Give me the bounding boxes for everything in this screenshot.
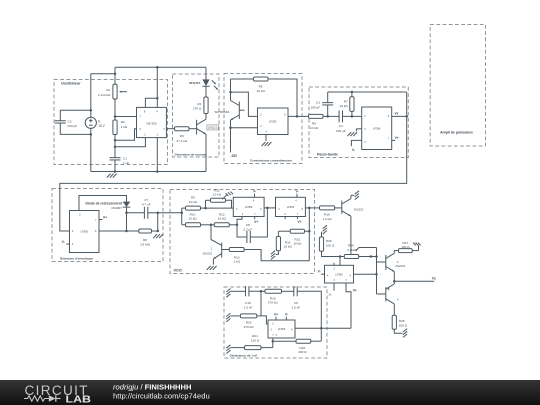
svg-text:R39: R39 — [348, 243, 354, 247]
capacitor C3 — [327, 105, 329, 117]
node base rail / U7 output — [375, 273, 378, 276]
capacitor C4 — [338, 110, 340, 122]
resistor R27 — [399, 249, 413, 253]
node R1/R2 junction to pin 7 — [114, 115, 117, 118]
node VCO input — [181, 212, 184, 215]
wire E bottom to ground rail — [90, 128, 92, 171]
svg-text:2N2222: 2N2222 — [203, 251, 213, 255]
wire C2 bottom — [60, 123, 91, 134]
wire R8 right — [152, 230, 158, 232]
wire R14 to ground — [276, 251, 279, 255]
svg-text:270 kΩ: 270 kΩ — [244, 325, 255, 329]
wire U8 V- stub — [285, 317, 287, 320]
transistor Q4 2N2222 chopper — [341, 201, 343, 214]
capacitor C10 — [245, 286, 247, 296]
VCO section box — [170, 190, 315, 274]
op-amp U3 LF356 — [362, 107, 392, 150]
wire U2 output — [288, 115, 309, 117]
wire to 555 pin 7 — [115, 116, 137, 118]
resistor R3 — [175, 127, 190, 131]
node 555 Vcc loop — [156, 97, 159, 100]
wire C4 to U3 pin2 — [343, 115, 362, 117]
ground U2 — [262, 142, 266, 146]
wire U6 V+ stubs — [284, 217, 286, 220]
op-amp U5 LF356 integrator — [233, 197, 264, 216]
svg-text:2.2 µF: 2.2 µF — [243, 227, 252, 231]
svg-text:http://circuitlab.com/cp74edu: http://circuitlab.com/cp74edu — [113, 392, 210, 401]
svg-text:C8: C8 — [246, 223, 250, 227]
IC U1 NE555 — [137, 107, 167, 137]
capacitor C9 — [293, 286, 295, 296]
wire R38 to R39 node — [322, 251, 341, 256]
svg-text:C3: C3 — [316, 101, 320, 105]
Ampli de puissance section box — [430, 25, 485, 147]
ground Q3 emitter — [207, 266, 211, 270]
wire R39 right — [359, 256, 377, 258]
svg-text:1.5 nF: 1.5 nF — [244, 305, 253, 309]
svg-text:270 kΩ: 270 kΩ — [268, 301, 279, 305]
svg-text:NE 555: NE 555 — [146, 122, 156, 126]
resistor R16 — [320, 206, 335, 210]
svg-text:2.114 kΩ: 2.114 kΩ — [98, 93, 111, 97]
svg-text:Générateur de courant: Générateur de courant — [175, 152, 206, 156]
CircuitLab logo diode — [49, 395, 56, 401]
wire bandpass feedback top — [328, 91, 407, 93]
svg-text:Convertisseur courant/tension: Convertisseur courant/tension — [250, 159, 292, 163]
wire Q1 emitter to ground rail — [205, 134, 207, 171]
node R7 top — [351, 91, 354, 94]
capacitor C8 — [237, 225, 247, 237]
svg-text:LF356: LF356 — [373, 126, 381, 130]
svg-text:LF356: LF356 — [269, 119, 277, 123]
svg-text:C4: C4 — [339, 124, 343, 128]
svg-text:LF356: LF356 — [81, 230, 89, 234]
svg-text:1 kΩ: 1 kΩ — [121, 125, 128, 129]
wire Q6 collector to R28 — [393, 304, 395, 315]
svg-text:10 kΩ: 10 kΩ — [310, 126, 319, 130]
wire E top to rails — [90, 74, 92, 110]
wire 555 pin 3 to R3 — [166, 128, 174, 130]
svg-text:10 kΩ: 10 kΩ — [293, 242, 302, 246]
svg-text:Jn: Jn — [328, 293, 331, 297]
svg-text:2N2222: 2N2222 — [208, 126, 218, 130]
svg-text:120 Ω: 120 Ω — [251, 338, 260, 342]
svg-text:V-: V- — [285, 312, 288, 316]
wire push-pull base rail — [376, 248, 378, 295]
capacitor C1 — [110, 157, 121, 159]
svg-text:C7: C7 — [144, 198, 148, 202]
wire U4 pin7 V+ — [99, 219, 102, 221]
wire R19 to C9 — [282, 290, 294, 292]
Generateur de sol section box — [224, 287, 327, 358]
svg-text:1.2 kΩ: 1.2 kΩ — [322, 217, 332, 221]
resistor R14 — [277, 231, 279, 236]
svg-text:R7: R7 — [344, 100, 348, 104]
node R39 left / U7 pin2 — [339, 255, 342, 258]
resistor R8 — [139, 229, 152, 233]
wire Q3 base to R13 — [222, 249, 230, 251]
svg-text:Oscillateur: Oscillateur — [61, 82, 81, 86]
wire to U2 pin 3 — [231, 127, 258, 129]
node R12/C8/U5 — [236, 224, 239, 227]
node sol output feedback — [320, 327, 323, 330]
svg-text:V-: V- — [295, 190, 298, 194]
wire R39 node to U7 pin2 — [339, 257, 341, 266]
node 555 Vcc rail — [156, 66, 159, 69]
wire rail bottom to R13 — [244, 250, 309, 261]
wire 555 Vcc pins 8 and 4 — [145, 98, 157, 107]
svg-text:V-: V- — [317, 270, 320, 274]
node Q2 collector / R5 / op-amp input — [229, 91, 232, 94]
wire U3 pin4 V- supply — [351, 140, 361, 146]
potentiometer R39 — [344, 255, 358, 259]
svg-text:Ampli de puissance: Ampli de puissance — [440, 130, 473, 134]
wire U3 pin7 V+ supply — [392, 139, 396, 141]
potentiometer R1 — [114, 74, 116, 85]
svg-text:10 kΩ: 10 kΩ — [284, 244, 293, 248]
resistor R10 — [182, 224, 186, 226]
wire R39 left — [340, 256, 344, 258]
wire bottom rail — [91, 171, 206, 173]
svg-text:V+: V+ — [103, 215, 107, 219]
wire U6 V- stub — [296, 194, 298, 198]
Passe-bande section box — [309, 87, 408, 158]
wire R2 bottom — [114, 135, 116, 158]
svg-text:330 Ω: 330 Ω — [298, 350, 307, 354]
node U5 output / C8 — [266, 207, 269, 210]
svg-text:10 kΩ: 10 kΩ — [189, 200, 198, 204]
ground sol R21 — [226, 345, 230, 348]
wire U3 pin3 to ground — [357, 128, 362, 130]
svg-text:2.2kΩ: 2.2kΩ — [347, 248, 356, 252]
svg-text:R8: R8 — [143, 238, 147, 242]
ground of oscillator — [107, 174, 111, 178]
svg-text:1N4007: 1N4007 — [111, 206, 122, 210]
svg-text:Vs: Vs — [432, 277, 436, 281]
node R15 tap — [308, 230, 311, 233]
svg-text:1: 1 — [210, 246, 212, 250]
wire Q4 collector to ground — [350, 195, 352, 198]
svg-text:R3: R3 — [180, 134, 184, 138]
resistor R19 — [265, 289, 282, 293]
svg-text:100 Ω: 100 Ω — [399, 324, 408, 328]
resistor R9 — [182, 207, 186, 209]
op-amp U7 LF356 output buffer — [325, 265, 354, 283]
wire Q2 emitter to -15V — [230, 120, 232, 152]
LED D2 SFH415 — [205, 67, 207, 79]
node 555 pin1 ground rail — [156, 170, 159, 173]
node R6/C3/C4 junction — [323, 115, 339, 117]
node R39 to base rail — [375, 255, 378, 258]
resistor R12 — [211, 224, 214, 226]
wire U4 pin4 V- — [66, 243, 69, 245]
svg-text:V-: V- — [352, 148, 355, 152]
svg-text:10 kΩ: 10 kΩ — [340, 104, 349, 108]
resistor R22 — [273, 340, 296, 342]
svg-text:LF356: LF356 — [245, 205, 253, 209]
node Vs output — [405, 115, 408, 118]
resistor R28 — [392, 315, 396, 329]
svg-text:E: E — [98, 119, 100, 123]
wire R20 to U8 pin2 — [257, 315, 261, 317]
transistor Q1 2N2222 — [196, 120, 198, 135]
svg-text:Générateur de 'sol': Générateur de 'sol' — [230, 354, 258, 358]
resistor R21 — [245, 346, 262, 350]
ground detector output — [153, 234, 157, 238]
wire R5 to output node — [268, 79, 297, 116]
voltage source E — [90, 110, 92, 117]
svg-text:10 kΩ: 10 kΩ — [257, 89, 266, 93]
resistor R5 feedback — [231, 78, 254, 80]
transistor Q6 PNP bottom — [385, 287, 387, 301]
svg-text:10 kΩ: 10 kΩ — [188, 216, 197, 220]
wire Vcc rail upper — [114, 67, 116, 74]
svg-text:2N2222: 2N2222 — [354, 208, 364, 212]
wire C10 to R19 — [249, 290, 265, 292]
wire C2 top — [60, 110, 91, 121]
node R5/output junction — [296, 115, 299, 118]
ground R28 — [403, 329, 407, 332]
wire U4 output to R8 — [99, 230, 139, 232]
svg-text:Détecteur d'enveloppe: Détecteur d'enveloppe — [60, 256, 93, 260]
node pin2 tap — [114, 146, 117, 149]
wire Q1 collector to R4 — [205, 114, 207, 120]
svg-text:270 Ω: 270 Ω — [193, 107, 202, 111]
node pin6 tap — [114, 139, 117, 142]
svg-text:LF356: LF356 — [287, 205, 295, 209]
wire U7 pin7 V+ from sol generator — [346, 283, 351, 328]
resistor R2 — [113, 120, 117, 135]
ground Q4 collector — [355, 191, 359, 194]
transistor Q5 2N2222 NPN top — [385, 255, 387, 270]
diode D1 1N4007 — [123, 202, 131, 207]
wire U8 output — [295, 327, 351, 329]
svg-text:V+: V+ — [395, 136, 399, 140]
wire U7 pin4 V- — [321, 273, 324, 275]
svg-text:R6: R6 — [312, 121, 316, 125]
node Q2 emitter / U2 pin3 — [229, 126, 232, 129]
node R10/R12/Q3 — [210, 224, 213, 227]
svg-text:Diode de redressement: Diode de redressement — [86, 201, 123, 205]
node Vs output — [393, 280, 396, 283]
Convertisseur courant/tension section box — [224, 74, 302, 164]
wire R39 wiper loop — [359, 247, 377, 249]
wire R12 node to U5 pin2 — [237, 217, 242, 225]
wire R3 to Q1 base — [189, 128, 197, 130]
wire Vs down and feedback to detector — [60, 92, 407, 231]
resistor R20 — [240, 314, 256, 318]
svg-text:100 pF: 100 pF — [310, 105, 320, 109]
wire Vs output — [394, 280, 434, 282]
node diode/C7 tap — [125, 212, 128, 215]
wire Q2 collector node to U2 pin2 — [231, 92, 258, 116]
node U6 output rail — [308, 207, 311, 210]
wire R22 to output node — [311, 340, 322, 342]
wire U7 pin2 stub — [333, 263, 335, 266]
svg-text:3.9 MΩ: 3.9 MΩ — [140, 243, 151, 247]
op-amp U4 LF356 — [70, 211, 100, 253]
ground R14 — [271, 251, 275, 254]
svg-text:27.4 kΩ: 27.4 kΩ — [176, 139, 187, 143]
node R7 bottom — [351, 115, 354, 118]
svg-text:LAB: LAB — [66, 393, 92, 405]
Oscillateur section box — [54, 80, 168, 165]
op-amp U8 LF356 sol — [268, 320, 295, 338]
node diode/U4 output — [125, 230, 128, 233]
wire U5 to U6 — [264, 207, 275, 209]
node R1 top — [114, 73, 117, 76]
svg-text:2N2222: 2N2222 — [395, 264, 405, 268]
svg-text:VCO: VCO — [174, 268, 182, 272]
svg-text:100 µF: 100 µF — [336, 129, 346, 133]
wire 555 pin 2 — [115, 138, 145, 147]
svg-text:V-: V- — [62, 240, 65, 244]
resistor R7 — [351, 92, 353, 97]
node R8/C7/ground — [157, 230, 160, 233]
node R39 right — [370, 255, 373, 258]
wire diode cathode down — [126, 207, 128, 231]
wire R1 to R2 — [114, 99, 116, 120]
node R9/R11 — [204, 207, 207, 210]
node C7 right — [157, 212, 160, 215]
svg-text:V+: V+ — [254, 220, 258, 224]
resistor R6 — [309, 114, 324, 118]
svg-text:rodrigju / FINISHHHHH: rodrigju / FINISHHHHH — [113, 382, 192, 391]
wire R28 to ground — [394, 329, 402, 333]
wire U4 pin2 feedback loop — [79, 196, 127, 211]
wire C9 to feedback vertical — [297, 291, 321, 341]
ground U3 pin3 — [347, 132, 351, 136]
ground sol R20 — [226, 313, 230, 316]
wire U3 output Vs — [392, 115, 407, 117]
svg-text:R9: R9 — [191, 195, 195, 199]
wire U6 output — [305, 207, 319, 209]
svg-text:LF356: LF356 — [278, 327, 286, 331]
wire U7 pin3 stub — [333, 283, 335, 291]
svg-text:SFH415: SFH415 — [189, 81, 201, 85]
resistor R4 — [204, 97, 208, 114]
svg-text:V+: V+ — [353, 289, 357, 293]
node C1 ground rail — [114, 170, 117, 173]
svg-text:LF356: LF356 — [335, 272, 343, 276]
wire U7 output to base rail — [354, 273, 377, 275]
svg-text:1 kΩ: 1 kΩ — [233, 260, 240, 264]
wire Q5 collector to R27 — [394, 251, 398, 254]
node E bottom — [90, 133, 93, 136]
footer bar — [0, 380, 540, 405]
wire feedback rail right side of VCO — [308, 208, 310, 261]
Detecteur d'enveloppe section box — [52, 189, 163, 262]
svg-text:R2: R2 — [121, 120, 125, 124]
ground R27 — [413, 243, 416, 246]
wire Q4 emitter to R39 wiper — [350, 216, 352, 254]
svg-text:10 kΩ: 10 kΩ — [218, 216, 227, 220]
svg-text:4.7 nF: 4.7 nF — [142, 203, 151, 207]
svg-text:100 Ω: 100 Ω — [326, 243, 335, 247]
svg-text:R5: R5 — [259, 85, 263, 89]
resistor R38 — [323, 225, 327, 228]
svg-text:1 nF: 1 nF — [123, 161, 129, 165]
op-amp U6 LF356 comparator — [276, 197, 306, 216]
capacitor C2 — [55, 120, 66, 122]
wire to U5 pin3 — [206, 207, 234, 209]
svg-text:R28: R28 — [399, 319, 405, 323]
svg-text:10 kΩ: 10 kΩ — [213, 193, 222, 197]
node C10/R19/R20 — [260, 290, 263, 293]
wire 555 pin 1 to ground rail — [156, 138, 158, 172]
svg-text:3: 3 — [397, 297, 399, 301]
resistor R15 — [278, 230, 290, 232]
wire U8 V+ stub — [275, 317, 277, 320]
svg-text:R1: R1 — [106, 88, 110, 92]
wire U5 V+ stub — [254, 217, 256, 220]
wire R21 to node — [261, 347, 273, 349]
svg-text:R4: R4 — [197, 102, 201, 106]
resistor R13 — [229, 248, 244, 252]
svg-text:100 Ω: 100 Ω — [401, 245, 410, 249]
wire detector output to VCO — [158, 212, 182, 214]
node R21/R22/U8 — [272, 340, 275, 343]
transistor Q3 2N2222 reset switch — [210, 225, 212, 240]
svg-text:V+: V+ — [297, 220, 301, 224]
svg-text:V+: V+ — [274, 312, 278, 316]
svg-text:-15V: -15V — [230, 154, 238, 158]
potentiometer R11 — [205, 200, 207, 208]
svg-text:SFH309FA: SFH309FA — [214, 110, 230, 114]
ground sol C10 — [226, 289, 230, 292]
wire U2 pin4 ground — [265, 135, 267, 142]
Generateur de courant section box — [173, 74, 220, 157]
svg-text:V-: V- — [253, 190, 256, 194]
op-amp U2 LF356 — [258, 108, 289, 135]
svg-text:15 V: 15 V — [98, 124, 105, 128]
wire 555 pin 6 — [115, 129, 137, 141]
svg-text:1.5 nF: 1.5 nF — [291, 305, 300, 309]
wire Q5 emitter / Q6 emitter / Vs node — [393, 272, 395, 284]
wire U5 V- stub — [254, 194, 256, 198]
capacitor C7 — [127, 212, 145, 214]
svg-text:Passe-bande: Passe-bande — [317, 153, 338, 157]
svg-text:220 µF: 220 µF — [68, 124, 78, 128]
wire U8 pin7 to R21/R22 — [272, 338, 274, 348]
wire R27 to ground — [412, 250, 418, 252]
node E top / C2 top — [90, 109, 93, 112]
CircuitLab logo resistor zigzag — [24, 396, 49, 401]
svg-text:Vs: Vs — [395, 111, 399, 115]
